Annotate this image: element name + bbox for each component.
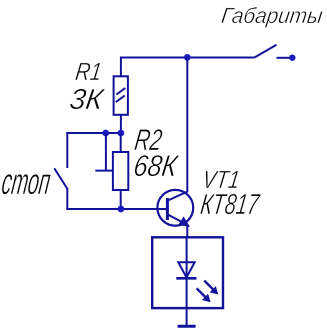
transistor VT1 base bar: [166, 198, 169, 220]
node R1-R2 junction: [118, 130, 125, 137]
LED cathode wire: [186, 278, 188, 308]
resistor R1 power marks: [116, 88, 125, 95]
wire R1 bottom vertical: [120, 115, 122, 133]
wire collector vertical: [186, 58, 188, 193]
resistor R2 body: [113, 152, 128, 190]
LED cathode bar: [176, 277, 196, 280]
wire ground vertical: [186, 308, 188, 326]
svg-text:68К: 68К: [132, 150, 181, 183]
switch Габариты contact dot: [289, 55, 295, 61]
transistor VT1 collector diagonal: [168, 191, 188, 200]
wire bottom horizontal to base: [66, 208, 166, 210]
wire R2 top vertical: [120, 133, 122, 152]
transistor VT1 emitter diagonal: [168, 215, 186, 225]
wire left branch upper vertical: [66, 132, 68, 168]
transistor VT1 emitter arrowhead: [178, 216, 190, 227]
LED light arrow 1: [204, 281, 218, 295]
wire top horizontal net: [120, 57, 255, 59]
wire emitter vertical: [186, 225, 188, 239]
LED anode wire: [186, 237, 188, 277]
svg-text:Габариты: Габариты: [220, 3, 324, 28]
svg-text:КТ817: КТ817: [199, 189, 263, 221]
transistor VT1 circle: [157, 190, 193, 226]
svg-text:стоп: стоп: [0, 160, 53, 202]
wire R1 top vertical: [120, 57, 122, 77]
switch Габариты lever: [255, 45, 277, 58]
LED triangle: [178, 262, 194, 277]
LED lamp box: [152, 237, 223, 308]
node base junction: [118, 206, 125, 213]
wire R2 bottom vertical: [120, 190, 122, 209]
svg-text:R1: R1: [74, 58, 104, 86]
resistor R1 body: [114, 76, 128, 115]
node junction top: [184, 54, 191, 61]
svg-text:3К: 3К: [68, 84, 107, 116]
switch стоп lever: [54, 168, 67, 189]
switch Габариты contact stub: [277, 57, 291, 59]
wire R2 tap vertical: [105, 133, 107, 171]
wire left branch lower vertical: [66, 189, 68, 211]
wire mid horizontal: [66, 132, 121, 134]
wire R2 tap T-bar: [95, 170, 113, 172]
LED light arrow 2: [197, 288, 211, 302]
ground: [178, 325, 196, 328]
node tap junction: [102, 130, 109, 137]
